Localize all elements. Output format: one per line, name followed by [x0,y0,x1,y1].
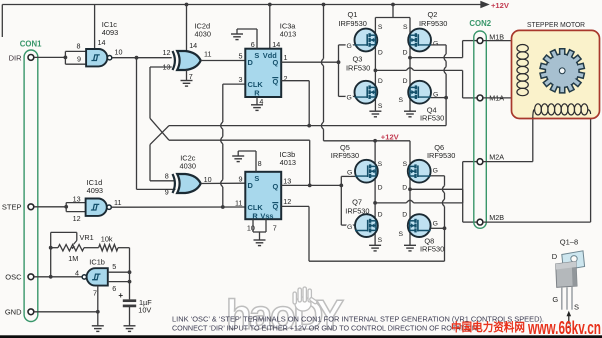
svg-text:Vss: Vss [260,211,273,220]
svg-text:11: 11 [114,198,121,207]
terminal M1B pin [477,38,483,44]
wire Q5 Q7 drain chord [374,160,376,245]
svg-text:10k: 10k [101,235,113,244]
svg-text:4093: 4093 [87,186,103,195]
svg-text:14: 14 [272,40,280,49]
wire IC1c output [112,57,172,59]
wire Q2 Q4 gate drive [431,44,446,46]
wire +12V drop to lower bridge [323,5,325,59]
svg-text:8: 8 [77,42,81,51]
svg-text:S: S [254,174,259,183]
transistor Q5 [355,160,378,183]
svg-text:4013: 4013 [280,158,296,167]
svg-text:G: G [347,224,352,231]
svg-text:D: D [378,212,383,219]
svg-text:D: D [552,252,558,261]
svg-text:S: S [574,303,579,312]
svg-text:+12V: +12V [491,1,510,10]
svg-text:R: R [254,88,260,97]
terminal GND pin [28,309,34,315]
wire IC2d pin14 drop [186,5,188,52]
transistor Q7 [355,214,378,237]
svg-text:D: D [402,212,407,219]
transistor Q1 [355,29,378,52]
wire IC3a S6 ground bracket [256,29,258,49]
svg-text:IRF530: IRF530 [420,245,444,254]
wire Q6 Q8 drain chord [409,141,411,246]
wire IC1b pin7 [97,286,99,326]
svg-text:S: S [378,237,383,244]
wire M1A to motor [483,97,516,99]
svg-text:4013: 4013 [280,30,296,39]
ground capacitor [124,326,136,332]
svg-text:11: 11 [235,198,242,207]
transistor Q8 [408,214,431,237]
xor gate IC2d [177,51,201,70]
wire IC3a Qbar down [281,80,309,82]
svg-text:IRF530: IRF530 [420,114,444,123]
package leads Q1-8 [562,287,572,310]
svg-text:D: D [378,78,383,85]
transistor Q4 [408,81,431,104]
wire IC3a CLK link [223,83,246,85]
svg-text:1: 1 [284,53,288,62]
connector CON1 outline [24,50,38,322]
wire IC2d pin13 feedback [150,66,172,68]
svg-text:14: 14 [98,38,106,47]
svg-text:14: 14 [189,41,197,50]
svg-text:10V: 10V [138,306,151,315]
wire bridge1 output M1A [375,69,406,71]
svg-text:S: S [403,161,408,168]
svg-text:13: 13 [73,194,81,203]
wire IC3b R10 Vss7 [252,219,254,232]
nand gate IC1d [86,199,107,216]
flip-flop IC3a [245,49,281,97]
svg-text:9: 9 [239,174,243,183]
wire STEP to IC1d inputs [34,206,66,208]
wire M2B to motor [483,221,590,223]
ground Q7 source [369,245,381,251]
terminal OSC pin [28,274,34,280]
ground Q3 source [369,111,381,117]
wire IC2c output to IC3b D [201,182,246,184]
power arrow +12V [480,2,488,8]
svg-text:S: S [378,103,383,110]
wire IC3a Vdd pin14 drop [269,5,271,49]
package tab Q1-8 [562,251,585,270]
svg-text:D: D [248,181,254,190]
svg-text:IRF530: IRF530 [346,64,370,73]
svg-text:G: G [347,95,352,102]
terminal STEP pin [28,204,34,210]
wire bridge2 output M2A [375,202,406,204]
svg-text:M2A: M2A [489,153,504,162]
motor rotor gear [540,49,584,93]
wire IC1c input bracket [64,51,66,64]
svg-text:3: 3 [239,75,243,84]
svg-text:Q: Q [273,202,279,211]
wire IC1b pin5 [108,271,130,273]
svg-text:G: G [552,295,558,304]
wire IC2d pin7 [186,70,188,81]
wire IC1b pin6 [108,281,130,283]
svg-text:D: D [403,49,408,56]
svg-text:4030: 4030 [195,30,211,39]
svg-text:1M: 1M [68,254,78,263]
wire IC3a Q to gates [281,61,338,63]
wire feedback line B [169,139,310,141]
svg-text:+: + [118,291,123,300]
svg-text:10: 10 [247,224,255,233]
ground IC1b pin7 [92,326,104,332]
svg-text:4030: 4030 [180,162,196,171]
svg-text:5: 5 [112,262,116,271]
wire feedback line A [169,125,446,127]
ground IC3a pin6 [231,34,243,40]
svg-text:R: R [252,211,258,220]
wire IC3b Qbar to gates [281,205,309,207]
svg-text:OSC: OSC [5,273,22,282]
wire IC1c pin14 drop [94,5,96,50]
bottom black bar [0,335,602,338]
connector CON2 outline [474,31,487,228]
svg-text:12: 12 [163,48,171,57]
svg-text:STEPPER MOTOR: STEPPER MOTOR [527,20,586,29]
svg-text:10: 10 [204,175,212,184]
svg-text:4: 4 [75,269,79,278]
svg-text:S: S [378,24,383,31]
ground Q4 source [404,111,416,117]
wire +12V top rail [2,4,480,6]
resistor 10k [99,245,118,251]
svg-text:7: 7 [189,72,193,81]
wire DIR to IC1c inputs [34,56,65,58]
wire VR1 wiper loop [50,232,52,276]
svg-text:Q7: Q7 [352,198,362,207]
svg-text:12: 12 [283,197,291,206]
svg-text:11: 11 [204,49,211,58]
ground IC3b pins 10 7 [254,240,266,246]
svg-text:7: 7 [93,288,97,297]
wire Q1 Q2 source bracket [392,5,394,18]
svg-text:8: 8 [258,159,262,168]
svg-text:IRF9530: IRF9530 [427,151,455,160]
svg-text:D: D [248,58,254,67]
wire IC3b S8 ground bracket [255,151,257,172]
svg-text:CON2: CON2 [469,19,491,28]
motor winding 1 [517,45,528,52]
svg-text:IRF9530: IRF9530 [339,19,367,28]
transistor Q2 [408,29,431,52]
svg-text:S: S [398,231,403,238]
transistor Q3 [355,81,378,104]
svg-text:Q: Q [273,77,279,86]
wire IC2d output to IC3a D [201,60,246,62]
resistor VR1 [51,247,58,249]
terminal M1A pin [477,95,483,101]
svg-text:13: 13 [283,176,291,185]
wire OSC to IC1b [34,276,82,278]
svg-text:9: 9 [165,188,169,197]
svg-text:IRF530: IRF530 [345,207,369,216]
svg-text:CON1: CON1 [20,39,42,48]
svg-text:D: D [403,78,408,85]
svg-text:CONNECT ‘DIR’ INPUT TO EITHER: CONNECT ‘DIR’ INPUT TO EITHER +12V OR GN… [172,324,479,333]
wire DIR feed down to IC2c pin9 [136,58,138,190]
svg-text:IRF9530: IRF9530 [419,19,447,28]
svg-text:Q2: Q2 [428,10,438,19]
watermark haoDiY [226,287,344,338]
capacitor C1 1uF [123,299,136,302]
svg-text:VR1: VR1 [80,233,94,242]
stepper motor body [512,30,600,118]
svg-text:G: G [347,43,352,50]
nand gate IC1b [87,268,108,285]
wire GND to pin7 [34,311,98,313]
flip-flop IC3b [245,172,281,219]
svg-text:G: G [433,221,438,228]
svg-text:Q1: Q1 [348,10,358,19]
svg-text:DIR: DIR [9,53,23,62]
nand gate IC1c [86,49,107,66]
wire M2A to motor [483,161,533,163]
svg-text:D: D [402,185,407,192]
svg-text:S: S [254,51,259,60]
wire bridge2 output M2B [410,188,463,190]
wire Q1 Q3 gate drive [338,45,340,97]
svg-text:M2B: M2B [489,213,504,222]
svg-text:D: D [378,185,383,192]
svg-text:Q: Q [273,58,279,67]
wire clock line [112,206,246,208]
svg-text:S: S [398,97,403,104]
svg-text:Q1–8: Q1–8 [560,238,578,247]
svg-text:8: 8 [165,172,169,181]
terminal M2A pin [477,159,483,165]
svg-text:Q3: Q3 [353,55,363,64]
svg-text:+12V: +12V [381,132,400,141]
svg-text:S: S [403,24,408,31]
svg-text:D: D [378,49,383,56]
ground Q8 source [404,245,416,251]
package body Q1-8 [556,262,577,288]
wire Q1 Q3 drain chord [374,18,376,112]
svg-text:5: 5 [239,51,243,60]
svg-text:www.66kv.cn: www.66kv.cn [527,317,601,338]
wire RC node [129,248,131,300]
wire IC3a R4 [256,97,258,105]
wire bridge1 output M1B [410,57,463,59]
svg-text:STEP: STEP [2,203,22,212]
wire Q5 Q7 gate drive [340,176,342,225]
wire M1B to motor [483,40,516,42]
ground IC2d pin7 [181,81,193,87]
svg-text:IRF9530: IRF9530 [331,151,359,160]
svg-text:G: G [433,41,438,48]
svg-text:4093: 4093 [102,28,118,37]
svg-text:G: G [433,168,438,175]
wire IC1d input bracket [65,203,67,212]
svg-text:6: 6 [251,40,255,49]
svg-text:S: S [378,161,383,168]
transistor Q6 [408,160,431,183]
svg-text:Q: Q [273,182,279,191]
svg-text:6: 6 [112,284,116,293]
xor gate IC2c [177,174,201,193]
motor winding 2 [535,104,542,115]
ground IC3a pin4 [251,105,263,111]
svg-text:12: 12 [73,214,81,223]
wire +12V lower rail [324,140,411,142]
wire Q5 source drop [374,141,376,160]
wire Q6 Q8 gate drive [430,175,444,177]
lead arrow D [568,315,570,322]
terminal DIR pin [28,55,34,61]
wire IC3b Q to gates [281,184,341,186]
wire left border stub [1,5,3,38]
wiper arrow VR1 [74,241,77,245]
ground IC3b pin8 [232,156,244,162]
svg-text:2: 2 [284,74,288,83]
svg-text:7: 7 [273,224,277,233]
svg-text:9: 9 [77,54,81,63]
svg-text:10: 10 [115,47,123,56]
svg-text:GND: GND [5,308,22,317]
svg-text:中国电力资料网: 中国电力资料网 [451,320,525,334]
svg-text:IC1b: IC1b [89,257,105,266]
svg-text:G: G [347,170,352,177]
terminal M2B pin [477,219,483,225]
wire Q2 Q4 drain chord [409,18,411,112]
